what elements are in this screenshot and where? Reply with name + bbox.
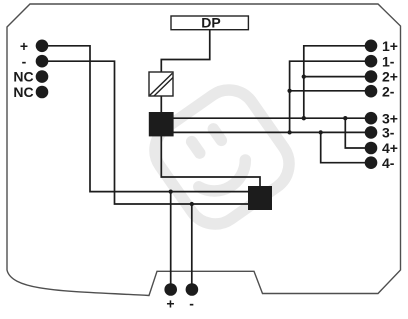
wire net B U1 to 3- <box>173 131 371 133</box>
junction net A at 3+ line <box>302 116 306 120</box>
svg-text:+: + <box>20 38 28 54</box>
terminal 3- <box>365 126 378 139</box>
svg-text:NC: NC <box>13 84 33 100</box>
terminal 2- <box>365 85 378 98</box>
terminal NC lower <box>36 86 49 99</box>
junction net A at 2+ <box>302 74 306 78</box>
svg-text:NC: NC <box>13 69 33 85</box>
wire net A to 2+ <box>304 76 371 78</box>
terminal - input <box>36 55 49 68</box>
terminal NC upper <box>36 70 49 83</box>
svg-text:2-: 2- <box>382 84 395 100</box>
wire - input to U2 <box>42 61 248 204</box>
svg-text:4+: 4+ <box>382 140 398 156</box>
wire net B to 2- <box>290 90 371 92</box>
svg-text:4-: 4- <box>382 155 395 171</box>
junction + feed to bottom terminal <box>169 189 173 193</box>
wire to bottom - terminal <box>191 204 193 290</box>
wire net B to 4- <box>321 132 371 162</box>
svg-text:-: - <box>22 53 27 69</box>
junction net B at 2- <box>287 89 291 93</box>
terminal + input <box>36 40 49 53</box>
wire net A to 1+ <box>304 46 371 118</box>
terminal bottom + <box>164 283 177 296</box>
svg-text:3-: 3- <box>382 125 395 141</box>
protection block U1 <box>149 112 174 136</box>
svg-text:DP: DP <box>201 15 220 31</box>
DP block <box>171 16 248 30</box>
svg-text:1-: 1- <box>382 53 395 69</box>
terminal 4+ <box>365 142 378 155</box>
wire net A to 4+ <box>345 118 371 148</box>
wire to bottom + terminal <box>170 192 172 290</box>
wire + input to U2 <box>42 46 248 192</box>
terminal 3+ <box>365 112 378 125</box>
terminal 2+ <box>365 70 378 83</box>
wire net A U1 to 3+ <box>173 117 371 119</box>
wire isolator F1 to U1 <box>160 96 162 112</box>
svg-text:+: + <box>166 296 174 312</box>
wire U1 to U2 <box>161 136 260 186</box>
svg-text:2+: 2+ <box>382 69 398 85</box>
terminal 1+ <box>365 40 378 53</box>
junction net A to 4+ <box>343 116 347 120</box>
isolator F1 (hatched box) <box>149 72 173 96</box>
svg-text:1+: 1+ <box>382 38 398 54</box>
junction net B to 4- <box>319 130 323 134</box>
protection block U2 <box>248 186 272 210</box>
wire DP to isolator F1 <box>161 30 209 72</box>
svg-text:-: - <box>189 296 194 312</box>
wire net B to 1- <box>290 61 371 132</box>
terminal 4- <box>365 156 378 169</box>
junction - feed to bottom terminal <box>190 202 194 206</box>
terminal bottom - <box>186 283 199 296</box>
junction net B at 3- line <box>287 130 291 134</box>
terminal 1- <box>365 55 378 68</box>
